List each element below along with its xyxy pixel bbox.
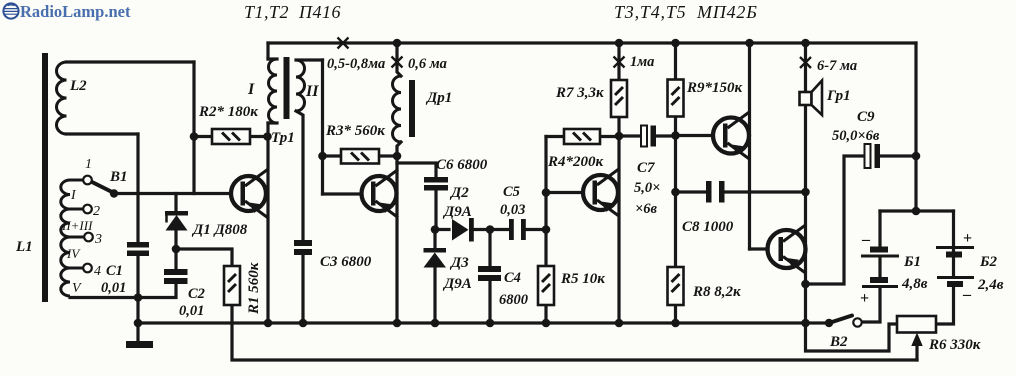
svg-text:С4: С4 — [504, 270, 521, 286]
svg-text:I: I — [247, 81, 255, 98]
svg-text:II+III: II+III — [61, 218, 93, 233]
svg-text:5,0×: 5,0× — [634, 180, 660, 196]
svg-text:R7 3,3к: R7 3,3к — [555, 85, 604, 101]
svg-text:R8 8,2к: R8 8,2к — [692, 284, 741, 300]
svg-text:С6 6800: С6 6800 — [436, 157, 488, 173]
svg-text:С8 1000: С8 1000 — [682, 219, 734, 235]
svg-text:В2: В2 — [829, 334, 848, 350]
svg-text:2,4в: 2,4в — [977, 277, 1004, 293]
svg-text:Т3,Т4,Т5 МП42Б: Т3,Т4,Т5 МП42Б — [614, 2, 758, 22]
svg-text:1: 1 — [85, 157, 92, 172]
svg-text:Гр1: Гр1 — [826, 88, 851, 104]
svg-text:R6 330к: R6 330к — [928, 337, 981, 353]
svg-text:6800: 6800 — [499, 292, 528, 308]
svg-text:Б2: Б2 — [979, 254, 998, 270]
svg-text:1ма: 1ма — [630, 54, 654, 70]
svg-text:×6в: ×6в — [635, 201, 658, 217]
svg-text:+: + — [860, 290, 869, 307]
svg-text:Д1 Д808: Д1 Д808 — [191, 222, 248, 238]
svg-text:С5: С5 — [503, 184, 520, 200]
svg-text:3: 3 — [94, 232, 102, 247]
svg-text:R1 560к: R1 560к — [246, 262, 262, 315]
svg-text:II: II — [305, 83, 319, 100]
svg-text:С9: С9 — [857, 109, 875, 125]
svg-text:Д3: Д3 — [449, 255, 469, 271]
svg-text:–: – — [962, 286, 972, 303]
svg-text:R4*200к: R4*200к — [547, 154, 604, 170]
svg-text:RadioLamp.net: RadioLamp.net — [20, 2, 131, 21]
svg-text:50,0×6в: 50,0×6в — [832, 128, 880, 144]
svg-text:R3* 560к: R3* 560к — [325, 123, 385, 139]
svg-text:L2: L2 — [69, 78, 87, 94]
svg-text:С7: С7 — [637, 160, 655, 176]
svg-text:0,01: 0,01 — [179, 303, 204, 319]
svg-text:IV: IV — [66, 246, 81, 261]
svg-text:R2* 180к: R2* 180к — [198, 104, 258, 120]
svg-text:V: V — [72, 281, 82, 296]
svg-text:4,8в: 4,8в — [901, 276, 928, 292]
svg-text:С2: С2 — [188, 286, 205, 302]
svg-text:–: – — [861, 231, 871, 248]
svg-text:Б1: Б1 — [903, 254, 921, 270]
svg-text:0,5-0,8ма: 0,5-0,8ма — [327, 56, 385, 72]
svg-text:R5 10к: R5 10к — [560, 271, 605, 287]
svg-text:В1: В1 — [109, 169, 128, 185]
svg-text:Др1: Др1 — [425, 90, 452, 106]
svg-text:Д2: Д2 — [449, 185, 469, 201]
svg-text:R9*150к: R9*150к — [686, 80, 743, 96]
svg-text:Т1,Т2 П416: Т1,Т2 П416 — [244, 2, 341, 22]
svg-text:4: 4 — [94, 264, 101, 279]
svg-text:0,6 ма: 0,6 ма — [408, 56, 447, 72]
svg-text:С3 6800: С3 6800 — [320, 254, 372, 270]
svg-text:Тр1: Тр1 — [271, 130, 295, 146]
svg-text:0,03: 0,03 — [500, 202, 525, 218]
svg-text:Д9А: Д9А — [442, 204, 472, 220]
svg-text:6-7 ма: 6-7 ма — [817, 58, 857, 74]
svg-text:2: 2 — [93, 204, 100, 219]
svg-text:L1: L1 — [15, 239, 33, 255]
svg-text:0,01: 0,01 — [101, 280, 126, 296]
svg-text:Д9А: Д9А — [442, 276, 472, 292]
svg-text:+: + — [963, 230, 972, 247]
svg-text:С1: С1 — [106, 263, 123, 279]
